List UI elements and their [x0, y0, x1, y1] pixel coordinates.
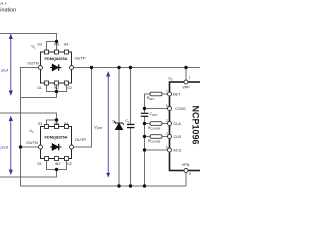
svg-text:G1: G1 — [37, 162, 42, 166]
svg-text:OUTN: OUTN — [26, 140, 37, 145]
svg-text:5: 5 — [166, 104, 168, 108]
svg-text:2: 2 — [166, 119, 168, 123]
svg-text:IN2: IN2 — [54, 86, 59, 90]
svg-text:COSC: COSC — [175, 107, 186, 111]
svg-text:3: 3 — [166, 132, 168, 136]
svg-text:OUTP: OUTP — [74, 56, 85, 61]
svg-text:VPP: VPP — [182, 86, 190, 90]
svg-text:pd,A: pd,A — [0, 69, 9, 73]
svg-text:FDMQ8205A: FDMQ8205A — [45, 56, 68, 61]
svg-text:7: 7 — [166, 90, 168, 94]
svg-text:DET: DET — [173, 93, 181, 97]
svg-text:G1: G1 — [37, 86, 42, 90]
svg-text:6: 6 — [166, 146, 168, 150]
svg-text:G4: G4 — [64, 43, 69, 47]
svg-text:IN1: IN1 — [54, 43, 59, 47]
svg-text:1: 1 — [189, 76, 191, 80]
svg-text:CLA: CLA — [174, 122, 182, 126]
svg-text:NCP1096: NCP1096 — [191, 105, 200, 144]
svg-text:OUTN: OUTN — [27, 60, 38, 65]
svg-text:8: 8 — [189, 172, 191, 176]
svg-text:G2: G2 — [67, 86, 72, 90]
svg-text:G3: G3 — [37, 43, 42, 47]
svg-text:OUTP: OUTP — [75, 137, 86, 142]
svg-text:rmination: rmination — [0, 8, 16, 14]
svg-text:IN2: IN2 — [55, 162, 60, 166]
svg-text:G4: G4 — [64, 122, 69, 126]
svg-text:FDMQ8205A: FDMQ8205A — [45, 135, 68, 140]
svg-text:IN1: IN1 — [54, 122, 59, 126]
svg-text:pd,B: pd,B — [0, 146, 8, 150]
svg-text:ACS: ACS — [173, 149, 181, 153]
svg-text:CLB: CLB — [174, 135, 182, 139]
svg-text:G2: G2 — [67, 162, 72, 166]
svg-text:G3: G3 — [38, 122, 43, 126]
svg-text:VPN: VPN — [182, 163, 190, 167]
svg-text:A +: A + — [0, 1, 7, 6]
